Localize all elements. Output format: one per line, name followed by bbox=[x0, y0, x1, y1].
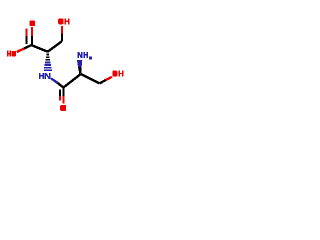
bond C5-C6 bbox=[81, 74, 100, 83]
bond HO-C1 bbox=[17, 45, 32, 52]
bond C2-CH2 bbox=[48, 42, 62, 52]
label O (amide carbonyl O4) bbox=[60, 105, 66, 111]
label O (carboxyl carbonyl O1) bbox=[30, 21, 35, 27]
bond C3-C5 bbox=[63, 74, 81, 88]
bond C1=O1 double bbox=[27, 27, 32, 45]
label OH (top serine hydroxyl) bbox=[58, 18, 69, 24]
label HN (amide N) bbox=[39, 73, 50, 79]
solid wedge C5 to NH2 (stereo) bbox=[77, 60, 82, 74]
bond N-C3 bbox=[51, 78, 63, 87]
hash wedge C2 to N (stereo) bbox=[44, 54, 52, 70]
label HO (carboxylic acid) bbox=[7, 51, 16, 57]
bond CH2-OH top bbox=[61, 26, 63, 42]
bond C3=O4 double bbox=[60, 88, 64, 104]
label OH (right serine hydroxyl) bbox=[112, 70, 123, 76]
label NH2 (amine) bbox=[78, 52, 92, 60]
bond C1-C2 bbox=[31, 45, 47, 52]
bond C6-OH right bbox=[99, 77, 112, 84]
